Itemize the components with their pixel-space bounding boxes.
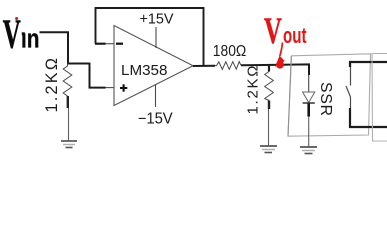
- node junction dot (red): [276, 61, 284, 69]
- resistor R3 1.2KΩ (vertical, output): [265, 65, 274, 146]
- node Vout label: [264, 10, 307, 51]
- wire switch bottom to load: [350, 108, 387, 127]
- wire thin stub into op-amp + input: [106, 87, 114, 89]
- -15V pin lead: [155, 84, 157, 107]
- output wire: [193, 65, 215, 67]
- svg-text:180Ω: 180Ω: [213, 43, 247, 60]
- node Vin label: [3, 11, 40, 57]
- diode D1 (LED inside SSR): [303, 75, 315, 147]
- +15V pin lead: [155, 27, 157, 48]
- ground (left): [61, 141, 77, 148]
- SSR box: [288, 54, 371, 136]
- svg-text:SSR: SSR: [317, 82, 334, 116]
- stray red dot above Vin: [15, 17, 18, 20]
- switch contact (SSR output side): [346, 64, 351, 109]
- resistor R1 1.2KΩ (vertical, input): [63, 64, 72, 142]
- svg-text:LM358: LM358: [121, 62, 167, 79]
- svg-text:V: V: [3, 11, 21, 57]
- pin + (non-inverting): [120, 84, 127, 91]
- wire resistor to SSR: [241, 64, 309, 75]
- pin - (inverting): [116, 43, 123, 45]
- svg-text:−15V: −15V: [138, 111, 174, 128]
- resistor R2 180Ω (horizontal): [215, 62, 241, 70]
- feedback wire output to inverting input: [96, 8, 204, 65]
- svg-text:+15V: +15V: [140, 11, 174, 28]
- op-amp U1 triangle: [114, 26, 193, 106]
- ground (middle): [260, 146, 277, 153]
- red leader arrow to Vout node: [280, 43, 283, 57]
- wire from Vin to input node: [40, 32, 106, 87]
- svg-text:ın: ın: [21, 24, 40, 54]
- svg-text:out: out: [283, 23, 307, 48]
- wire switch top to load: [350, 62, 387, 67]
- wire stub to - input: [95, 43, 106, 45]
- load box (cut off at right edge): [372, 54, 387, 142]
- svg-text:V: V: [264, 10, 282, 51]
- ground (right, under diode): [300, 147, 317, 154]
